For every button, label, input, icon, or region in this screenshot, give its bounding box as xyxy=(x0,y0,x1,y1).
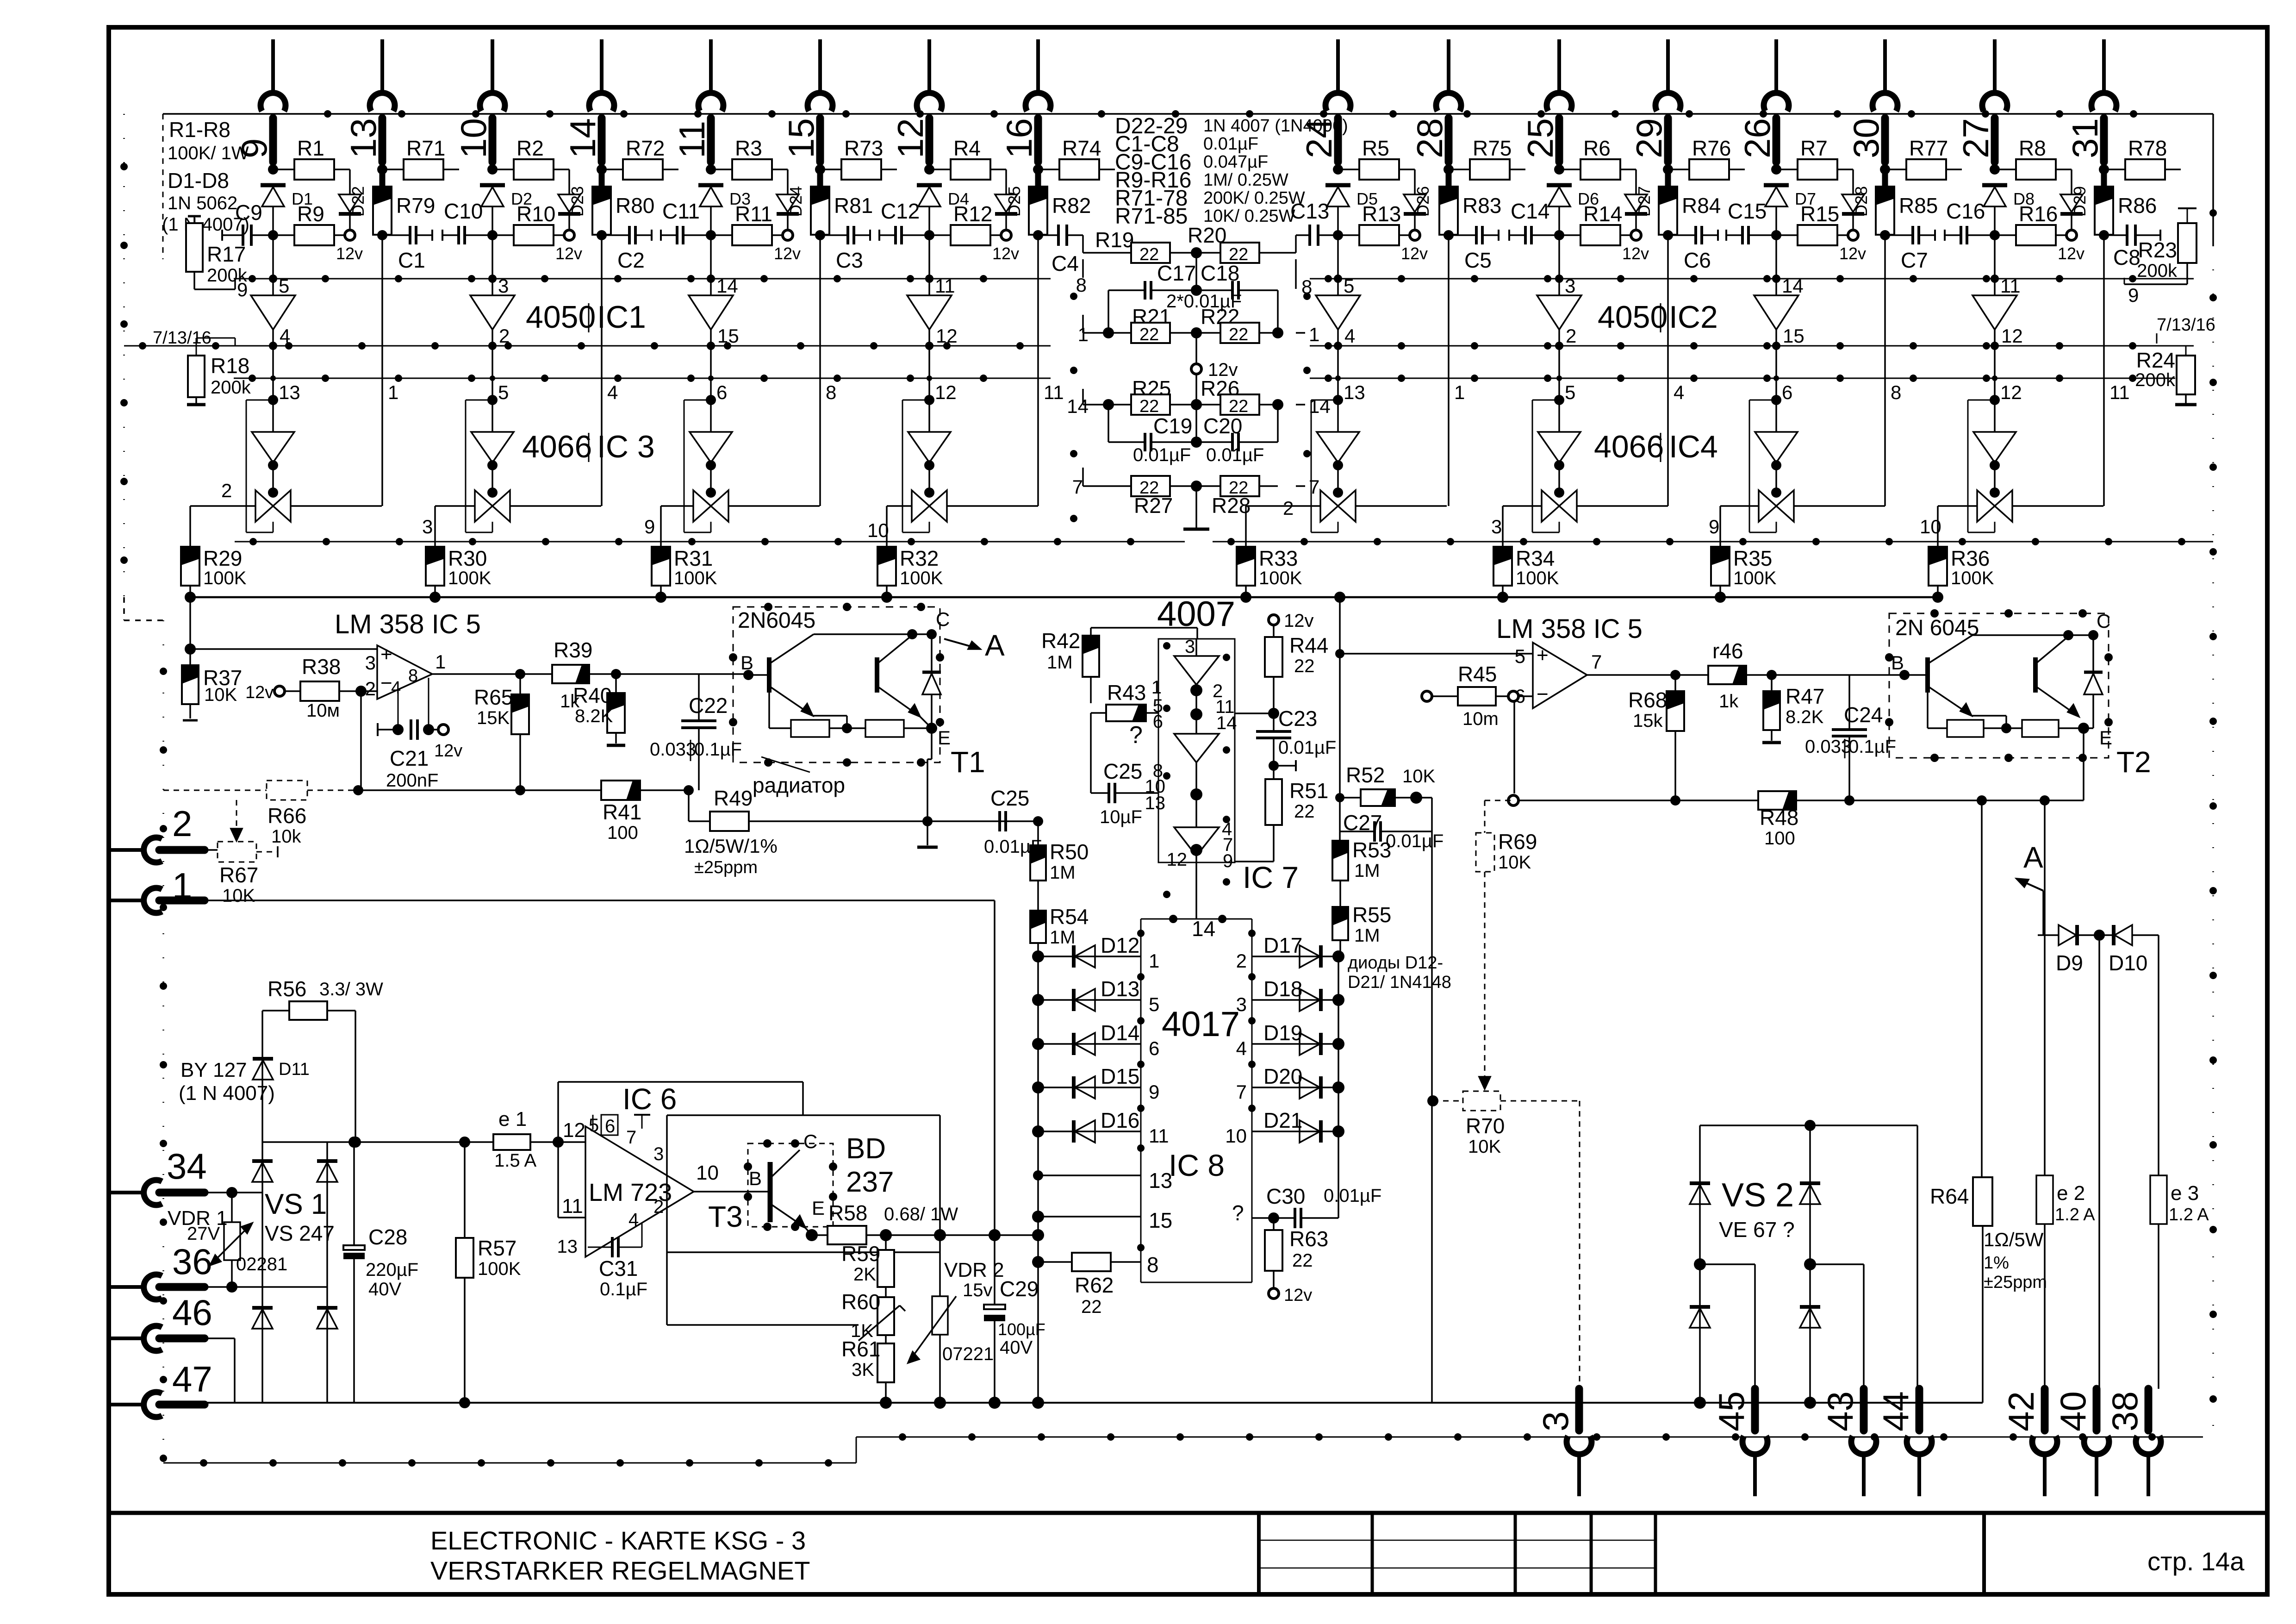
trimmer R55 xyxy=(1332,881,1391,956)
svg-text:27: 27 xyxy=(1955,118,1996,158)
svg-text:11: 11 xyxy=(1044,381,1064,403)
dashed R67 xyxy=(205,842,278,906)
svg-text:C11: C11 xyxy=(662,199,700,223)
svg-text:D14: D14 xyxy=(1101,1021,1139,1045)
svg-text:R54: R54 xyxy=(1050,905,1089,929)
svg-text:12v: 12v xyxy=(245,683,274,702)
diode D20 xyxy=(1236,1061,1344,1103)
svg-text:30: 30 xyxy=(1846,118,1886,158)
svg-text:R40: R40 xyxy=(573,683,612,707)
svg-text:B: B xyxy=(1891,652,1904,674)
wire column vertical xyxy=(272,235,274,295)
connector pin 1 xyxy=(111,865,205,913)
svg-text:10µF: 10µF xyxy=(1100,807,1142,827)
svg-text:D20: D20 xyxy=(1263,1064,1302,1088)
resistor R38 xyxy=(285,655,377,721)
svg-text:C: C xyxy=(2097,610,2110,632)
svg-text:8.2K: 8.2K xyxy=(1786,707,1824,727)
capacitor C12 xyxy=(879,199,929,244)
svg-text:0.033: 0.033 xyxy=(650,739,696,760)
capacitor C23 xyxy=(1256,706,1336,771)
svg-text:8: 8 xyxy=(1076,274,1087,296)
capacitor C6 xyxy=(1668,226,1718,272)
svg-text:D17: D17 xyxy=(1263,933,1302,957)
resistor R45 xyxy=(1422,662,1533,793)
svg-text:1M: 1M xyxy=(1354,861,1380,881)
svg-text:R31: R31 xyxy=(674,546,713,570)
capacitor C27 xyxy=(1340,798,1444,851)
svg-text:15K: 15K xyxy=(477,708,510,728)
resistor in T2 left xyxy=(1928,693,2022,737)
svg-text:D28: D28 xyxy=(1852,186,1871,217)
svg-text:R10: R10 xyxy=(516,202,555,226)
resistor R49 xyxy=(684,786,1038,877)
potentiometer R39 xyxy=(552,638,748,712)
wire xyxy=(1663,230,1673,240)
trimmer R84 xyxy=(1659,169,1721,235)
svg-text:25: 25 xyxy=(1520,118,1561,158)
svg-text:B: B xyxy=(749,1168,762,1189)
svg-text:22: 22 xyxy=(1229,397,1248,416)
svg-text:C2: C2 xyxy=(617,248,645,272)
svg-text:8: 8 xyxy=(1891,381,1901,403)
svg-text:2: 2 xyxy=(499,325,510,347)
svg-text:?: ? xyxy=(1129,722,1143,749)
svg-text:15: 15 xyxy=(717,325,739,347)
svg-text:14: 14 xyxy=(1067,395,1089,417)
svg-text:4: 4 xyxy=(280,325,290,347)
svg-text:15: 15 xyxy=(1149,1208,1172,1232)
svg-text:9: 9 xyxy=(2128,284,2139,306)
connector pin 38 xyxy=(2104,1389,2161,1496)
diode D19 xyxy=(1236,1017,1344,1059)
resistor R15 xyxy=(1771,202,1848,245)
svg-text:100K: 100K xyxy=(478,1259,521,1279)
svg-text:8: 8 xyxy=(1147,1253,1159,1277)
arrow to A left xyxy=(944,629,1005,662)
svg-text:R8: R8 xyxy=(2019,136,2046,160)
svg-text:R32: R32 xyxy=(900,546,939,570)
svg-text:2: 2 xyxy=(1566,325,1576,347)
wire column vertical xyxy=(1337,235,1339,295)
connector pin 34 xyxy=(111,1146,215,1205)
buffer gate 4050 xyxy=(1537,275,1581,405)
transistor Q1a xyxy=(740,634,814,716)
svg-text:D25: D25 xyxy=(1005,186,1024,217)
svg-text:100K: 100K xyxy=(448,568,492,588)
diode D5 xyxy=(1325,185,1378,235)
svg-text:12v: 12v xyxy=(774,244,801,263)
analog switch 4066 xyxy=(255,467,291,522)
svg-text:C25: C25 xyxy=(1103,759,1142,783)
legend D22-29 C1-C16 values xyxy=(1115,114,1348,229)
svg-text:8: 8 xyxy=(408,666,418,686)
buffer gate 4066 xyxy=(1538,400,1580,470)
svg-text:10: 10 xyxy=(1225,1125,1247,1147)
svg-text:R11: R11 xyxy=(735,202,772,226)
svg-text:14: 14 xyxy=(1192,917,1215,941)
svg-text:10K: 10K xyxy=(1498,852,1531,873)
svg-text:7: 7 xyxy=(626,1127,636,1148)
svg-text:C31: C31 xyxy=(599,1256,638,1280)
svg-text:14: 14 xyxy=(716,275,738,297)
diode D17 xyxy=(1236,930,1344,972)
resistor R2 xyxy=(487,136,569,180)
analog switch 4066 xyxy=(693,467,728,522)
wire IC8 right rail xyxy=(1338,956,1339,1218)
svg-text:(1 N 4007): (1 N 4007) xyxy=(162,214,249,235)
connector pin 14 xyxy=(562,39,614,162)
svg-text:R65: R65 xyxy=(474,685,513,709)
svg-text:R81: R81 xyxy=(834,194,873,218)
wire IC8 rail to bus xyxy=(1032,1397,1044,1409)
svg-text:45: 45 xyxy=(1711,1391,1752,1431)
svg-text:7: 7 xyxy=(1309,476,1319,498)
trimmer R29 xyxy=(181,506,255,603)
svg-text:100: 100 xyxy=(1764,828,1795,849)
svg-text:34: 34 xyxy=(167,1146,207,1187)
diode D15 xyxy=(1032,1061,1159,1103)
svg-text:R58: R58 xyxy=(828,1201,867,1225)
svg-text:R74: R74 xyxy=(1062,136,1101,160)
resistor R73 xyxy=(815,136,897,180)
svg-text:D13: D13 xyxy=(1101,977,1139,1001)
svg-text:R85: R85 xyxy=(1899,194,1938,218)
capacitor C9 xyxy=(222,200,273,246)
svg-text:237: 237 xyxy=(846,1166,894,1198)
trimmer R83 xyxy=(1439,169,1501,235)
svg-text:R59: R59 xyxy=(841,1242,880,1266)
svg-text:R69: R69 xyxy=(1498,830,1537,854)
svg-text:1.2 A: 1.2 A xyxy=(2169,1205,2209,1224)
svg-text:1.2 A: 1.2 A xyxy=(2055,1205,2095,1224)
svg-text:R34: R34 xyxy=(1516,546,1555,570)
svg-text:R52: R52 xyxy=(1346,763,1385,787)
12v supply node xyxy=(555,230,582,263)
svg-text:100K: 100K xyxy=(900,568,943,588)
connector pin 36 xyxy=(111,1241,232,1299)
resistor R7 xyxy=(1771,136,1853,180)
wire 4066 control loop xyxy=(246,400,273,532)
trimmer R85 xyxy=(1876,169,1938,235)
svg-text:D22: D22 xyxy=(348,186,367,217)
resistor R16 xyxy=(1990,202,2066,245)
svg-text:1N 5062: 1N 5062 xyxy=(168,193,237,213)
svg-text:12v: 12v xyxy=(2058,244,2084,263)
left vertical bus wire xyxy=(120,114,167,1463)
resistor R51 xyxy=(1235,766,1328,862)
svg-text:7/13/16: 7/13/16 xyxy=(2157,315,2215,335)
resistor R9 xyxy=(268,202,345,245)
wire 4066 control loop xyxy=(466,400,492,532)
svg-text:R7: R7 xyxy=(1800,136,1828,160)
12v supply node xyxy=(336,230,363,263)
svg-text:2: 2 xyxy=(1236,950,1247,972)
svg-text:R71: R71 xyxy=(406,136,445,160)
wire column vertical xyxy=(601,235,603,506)
resistor R21 xyxy=(1078,305,1196,345)
svg-text:12: 12 xyxy=(2000,381,2022,403)
wire column vertical xyxy=(1037,235,1039,506)
wire column vertical xyxy=(381,235,383,506)
svg-text:IC 7: IC 7 xyxy=(1243,860,1299,894)
svg-text:100K: 100K xyxy=(203,568,247,588)
svg-text:C23: C23 xyxy=(1278,706,1317,731)
capacitor C7 xyxy=(1885,226,1935,272)
connector pin 45 xyxy=(1711,1389,1767,1496)
capacitor C29 xyxy=(984,1235,1045,1409)
wire 4066 control loop xyxy=(1532,400,1559,532)
wire xyxy=(1880,230,1890,240)
analog switch 4066 xyxy=(1542,467,1577,522)
svg-text:1: 1 xyxy=(388,381,398,403)
svg-text:C24: C24 xyxy=(1844,703,1883,727)
bottom ground bus xyxy=(205,1402,1983,1404)
svg-text:22: 22 xyxy=(1294,656,1315,676)
buffer gate 4066 xyxy=(471,400,514,470)
svg-text:D21/ 1N4148: D21/ 1N4148 xyxy=(1348,973,1451,992)
wire connector 1 line xyxy=(205,900,995,1235)
svg-text:1k: 1k xyxy=(1719,691,1739,712)
svg-text:R29: R29 xyxy=(203,546,242,570)
svg-text:R72: R72 xyxy=(626,136,665,160)
wire column vertical xyxy=(1667,235,1669,506)
svg-text:R62: R62 xyxy=(1075,1273,1114,1297)
trimmer R47 xyxy=(1762,675,1824,743)
svg-text:D10: D10 xyxy=(2109,951,2147,975)
trimmer R30 xyxy=(426,506,492,603)
svg-text:13: 13 xyxy=(279,381,300,403)
svg-text:26: 26 xyxy=(1737,118,1778,158)
wire column vertical xyxy=(1558,235,1560,295)
wire T3 emitter to R58 xyxy=(805,1228,828,1241)
svg-text:e 2: e 2 xyxy=(2057,1182,2085,1205)
svg-text:12: 12 xyxy=(935,381,957,403)
wire op-amp plus input xyxy=(185,597,377,655)
svg-text:9: 9 xyxy=(644,516,655,537)
svg-text:C30: C30 xyxy=(1266,1184,1305,1208)
svg-text:100K: 100K xyxy=(674,568,717,588)
svg-text:0.01µF: 0.01µF xyxy=(1206,445,1264,465)
svg-text:C19: C19 xyxy=(1153,414,1192,438)
svg-text:IC 3: IC 3 xyxy=(597,429,655,464)
svg-text:15v: 15v xyxy=(963,1280,993,1300)
svg-text:07221: 07221 xyxy=(942,1344,994,1364)
capacitor C25 10uF xyxy=(1091,759,1158,827)
svg-text:4: 4 xyxy=(628,1210,639,1230)
resistor R3 xyxy=(706,136,788,180)
svg-text:1Ω/5W/1%: 1Ω/5W/1% xyxy=(684,835,778,857)
resistor R26 xyxy=(1191,376,1331,417)
svg-text:VS 1: VS 1 xyxy=(265,1188,327,1220)
resistor R23 xyxy=(2124,208,2196,306)
wire feedback right xyxy=(1508,795,2084,806)
capacitor C20 xyxy=(1191,405,1278,465)
capacitor C15 xyxy=(1726,199,1776,244)
wire column vertical xyxy=(819,235,821,506)
pin labels IC7 xyxy=(1145,637,1237,898)
connector pin 26 xyxy=(1737,39,1789,162)
diode D13 xyxy=(1032,973,1159,1015)
svg-text:5: 5 xyxy=(279,275,289,297)
svg-text:R50: R50 xyxy=(1050,840,1089,864)
svg-text:10K: 10K xyxy=(222,886,255,906)
svg-text:C6: C6 xyxy=(1684,248,1711,272)
svg-text:R36: R36 xyxy=(1951,546,1990,570)
wire 4066 control loop xyxy=(1749,400,1776,532)
svg-text:+: + xyxy=(380,643,392,666)
svg-text:200nF: 200nF xyxy=(386,770,438,791)
wire T1 emitter down xyxy=(920,717,932,821)
12v supply node xyxy=(2058,230,2084,263)
trimmer R80 xyxy=(592,169,654,235)
wire R52 node to bottom bus xyxy=(1431,831,1433,1403)
connector pin 29 xyxy=(1629,39,1680,162)
trimmer R35 xyxy=(1711,506,1777,603)
svg-text:диоды D12-: диоды D12- xyxy=(1348,953,1443,973)
IC label 4050 IC2 xyxy=(1598,300,1718,335)
capacitor C2 xyxy=(602,226,652,272)
svg-text:R1-R8: R1-R8 xyxy=(169,118,230,142)
svg-text:C17: C17 xyxy=(1157,261,1196,285)
wire column vertical xyxy=(1884,235,1886,506)
svg-text:10k: 10k xyxy=(271,826,301,847)
svg-text:R18: R18 xyxy=(211,354,249,378)
transistor Q2a xyxy=(1891,635,1972,716)
wire xyxy=(377,230,387,240)
svg-text:5: 5 xyxy=(1515,645,1525,667)
svg-text:10K: 10K xyxy=(1402,766,1435,787)
wire VS2 taps xyxy=(1700,1125,1917,1389)
wire T2 emitter down xyxy=(2084,728,2151,800)
capacitor C16 xyxy=(1945,199,1995,244)
varistor VDR1 xyxy=(168,1187,287,1287)
rectifier VS1 xyxy=(252,1142,337,1403)
svg-text:C5: C5 xyxy=(1464,248,1492,272)
svg-text:A: A xyxy=(985,629,1005,662)
svg-text:13: 13 xyxy=(343,118,384,158)
diode D2 xyxy=(480,185,532,235)
12v supply node xyxy=(774,230,801,263)
fuse e1 xyxy=(493,1108,585,1171)
svg-text:IC1: IC1 xyxy=(597,300,646,335)
op-amp IC5b LM358 xyxy=(1496,614,1643,708)
trimmer R33 xyxy=(1237,506,1320,603)
diode D1 xyxy=(261,185,313,235)
wire op-amp output right xyxy=(1587,670,1708,680)
svg-text:3K: 3K xyxy=(852,1360,874,1380)
wire switch to next column xyxy=(2012,505,2103,507)
fuse e3 xyxy=(2150,1175,2209,1389)
svg-text:9: 9 xyxy=(1223,851,1233,871)
title text xyxy=(430,1526,2245,1585)
svg-text:4: 4 xyxy=(607,381,618,403)
svg-text:IC2: IC2 xyxy=(1669,300,1718,335)
wire column vertical xyxy=(492,235,493,295)
wire D9-D10 verticals xyxy=(2099,935,2159,1389)
svg-text:43: 43 xyxy=(1820,1391,1860,1431)
svg-text:28: 28 xyxy=(1409,118,1450,158)
svg-text:D18: D18 xyxy=(1263,977,1302,1001)
trimmer R53 xyxy=(1332,838,1391,881)
svg-text:R5: R5 xyxy=(1362,136,1389,160)
wire switch to next column xyxy=(1794,505,1885,507)
svg-text:14: 14 xyxy=(562,118,603,158)
wire VS1 top to e1 xyxy=(327,1141,493,1143)
svg-text:100K: 100K xyxy=(1259,568,1302,588)
svg-text:46: 46 xyxy=(172,1292,212,1333)
svg-text:100µF: 100µF xyxy=(998,1320,1045,1339)
arrow to A right xyxy=(2016,841,2043,935)
svg-text:3: 3 xyxy=(653,1144,664,1164)
pin labels switch row xyxy=(221,480,1941,541)
svg-text:10: 10 xyxy=(453,118,494,158)
dashed bus row wires xyxy=(124,275,2213,545)
svg-text:10m: 10m xyxy=(1462,709,1499,729)
capacitor C22 xyxy=(650,674,742,790)
wire 4066 control loop xyxy=(1311,400,1338,532)
svg-text:D21: D21 xyxy=(1263,1108,1302,1132)
buffer gate 4050 xyxy=(1972,275,2017,405)
svg-text:5: 5 xyxy=(589,1115,599,1136)
trimmer R54 xyxy=(1030,881,1089,956)
svg-text:R77: R77 xyxy=(1909,136,1948,160)
svg-text:11: 11 xyxy=(2000,275,2021,297)
capacitor C11 xyxy=(661,199,711,244)
capacitor C21 xyxy=(361,678,462,791)
diode D21 xyxy=(1225,1105,1344,1147)
svg-text:14: 14 xyxy=(1782,275,1804,297)
svg-text:ELECTRONIC - KARTE KSG - 3: ELECTRONIC - KARTE KSG - 3 xyxy=(430,1526,806,1555)
12v node central xyxy=(1191,333,1238,405)
svg-text:R68: R68 xyxy=(1628,688,1667,712)
capacitor C1 xyxy=(382,226,432,272)
svg-text:C15: C15 xyxy=(1728,199,1767,223)
svg-text:IC4: IC4 xyxy=(1669,429,1718,464)
svg-text:44: 44 xyxy=(1875,1391,1916,1431)
svg-text:9: 9 xyxy=(1149,1081,1159,1103)
svg-text:радиатор: радиатор xyxy=(753,773,845,797)
svg-text:12v: 12v xyxy=(1284,611,1314,631)
svg-text:10м: 10м xyxy=(306,700,340,721)
svg-text:12: 12 xyxy=(936,325,958,347)
IC label 4066 IC4 xyxy=(1594,429,1718,464)
svg-text:R49: R49 xyxy=(714,786,753,810)
svg-text:R71-85: R71-85 xyxy=(1115,204,1188,229)
svg-text:C18: C18 xyxy=(1201,261,1239,285)
resistor R22 xyxy=(1191,305,1319,345)
svg-text:E: E xyxy=(812,1197,825,1219)
ground xyxy=(1183,486,1209,529)
svg-text:R15: R15 xyxy=(1800,202,1839,226)
svg-text:3: 3 xyxy=(365,652,376,674)
svg-text:C20: C20 xyxy=(1203,414,1242,438)
svg-text:R67: R67 xyxy=(219,863,258,887)
capacitor C24 xyxy=(1805,675,1896,800)
fuse e2 xyxy=(2036,795,2095,1389)
resistor R71 xyxy=(377,136,459,180)
svg-text:R73: R73 xyxy=(844,136,883,160)
svg-text:2N 6045: 2N 6045 xyxy=(1895,616,1979,640)
potentiometer R48 xyxy=(1758,791,1798,849)
svg-text:C29: C29 xyxy=(1000,1277,1039,1301)
svg-text:D29: D29 xyxy=(2070,186,2089,217)
svg-text:D12: D12 xyxy=(1101,933,1139,957)
svg-text:200k: 200k xyxy=(2137,261,2178,281)
svg-text:0.01µF: 0.01µF xyxy=(1278,737,1336,758)
svg-text:3.3/ 3W: 3.3/ 3W xyxy=(319,979,383,999)
connector pin 9 xyxy=(234,39,286,162)
